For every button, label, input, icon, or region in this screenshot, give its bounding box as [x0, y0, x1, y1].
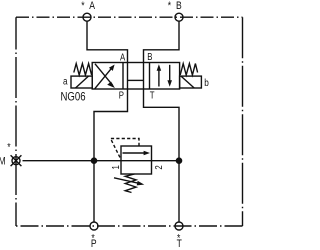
- solenoid a box: [71, 76, 92, 88]
- svg-text:B: B: [147, 51, 152, 62]
- valve left position crossed arrows: [95, 64, 115, 89]
- svg-text:NG06: NG06: [61, 90, 86, 103]
- port B: [175, 13, 183, 21]
- port P: [90, 222, 98, 230]
- boundary chain line bottom: [16, 225, 243, 227]
- svg-text:*: *: [81, 0, 84, 12]
- svg-text:a: a: [63, 74, 68, 86]
- boundary chain line right: [242, 17, 244, 226]
- svg-text:A: A: [120, 52, 125, 63]
- wire port B to valve B: [144, 21, 180, 62]
- svg-text:P: P: [119, 90, 124, 101]
- svg-text:T: T: [177, 238, 182, 250]
- relief valve flow arrow: [123, 151, 151, 156]
- svg-text:P: P: [91, 238, 97, 250]
- svg-text:T: T: [150, 90, 155, 101]
- node junction T-M: [176, 158, 181, 163]
- svg-text:1: 1: [110, 165, 121, 169]
- svg-text:b: b: [204, 76, 209, 88]
- svg-text:2: 2: [153, 165, 164, 169]
- svg-text:*: *: [7, 142, 10, 154]
- wire valve P down to port P: [94, 89, 128, 222]
- svg-text:A: A: [89, 0, 95, 12]
- port M plugged: [11, 155, 22, 166]
- boundary chain line left: [15, 17, 17, 226]
- relief valve adjust arrow: [114, 178, 144, 186]
- label *A: [0, 0, 209, 250]
- relief valve spring: [125, 174, 136, 193]
- port A: [83, 13, 91, 21]
- svg-text:*: *: [168, 0, 171, 12]
- valve center position H: [128, 63, 144, 90]
- wire M gauge line: [23, 160, 180, 162]
- spring left: [74, 64, 92, 75]
- op valve U1 envelope: [92, 63, 179, 90]
- port T: [175, 222, 183, 230]
- relief valve V1 box: [121, 146, 152, 174]
- solenoid b box: [180, 76, 202, 88]
- wire valve T down to port T: [144, 89, 180, 222]
- svg-text:B: B: [176, 0, 182, 12]
- boundary chain line top: [16, 16, 243, 18]
- node junction P-M: [91, 158, 96, 163]
- spring right: [180, 64, 197, 75]
- valve right position parallel arrows: [157, 64, 172, 87]
- svg-text:M: M: [0, 156, 6, 168]
- relief valve pilot dashed line: [111, 139, 140, 159]
- wire port A to valve A: [87, 21, 128, 62]
